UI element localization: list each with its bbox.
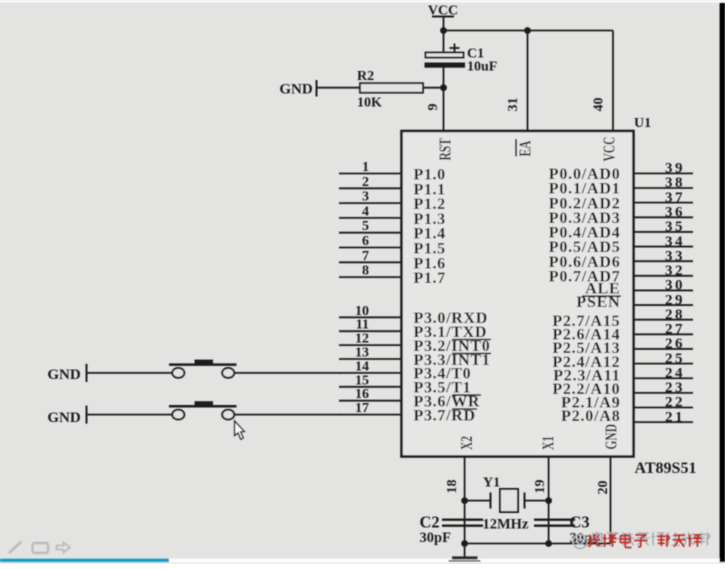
svg-text:39: 39 bbox=[665, 161, 685, 177]
svg-text:33: 33 bbox=[665, 248, 685, 264]
svg-text:12: 12 bbox=[355, 332, 369, 347]
svg-text:25: 25 bbox=[665, 351, 685, 367]
svg-text:27: 27 bbox=[665, 322, 685, 338]
svg-text:20: 20 bbox=[596, 481, 611, 495]
svg-text:GND: GND bbox=[279, 82, 313, 98]
svg-text:3: 3 bbox=[362, 190, 369, 205]
svg-text:Y1: Y1 bbox=[483, 476, 500, 491]
svg-text:28: 28 bbox=[665, 307, 685, 323]
svg-text:40: 40 bbox=[592, 98, 607, 112]
svg-text:30: 30 bbox=[665, 278, 685, 294]
svg-text:VCC: VCC bbox=[601, 137, 620, 162]
svg-text:12MHz: 12MHz bbox=[483, 517, 529, 533]
svg-text:2: 2 bbox=[362, 175, 369, 190]
svg-text:29: 29 bbox=[665, 292, 685, 308]
svg-text:14: 14 bbox=[355, 359, 369, 374]
svg-text:35: 35 bbox=[665, 219, 685, 235]
svg-text:22: 22 bbox=[665, 395, 685, 411]
svg-text:5: 5 bbox=[362, 219, 369, 234]
svg-text:24: 24 bbox=[665, 365, 685, 381]
svg-text:GND: GND bbox=[47, 367, 81, 383]
svg-text:X1: X1 bbox=[540, 436, 559, 450]
svg-text:16: 16 bbox=[355, 387, 369, 402]
svg-text:34: 34 bbox=[665, 234, 685, 250]
svg-text:21: 21 bbox=[665, 409, 685, 425]
svg-text:8: 8 bbox=[362, 264, 369, 279]
svg-text:P2.0/A8: P2.0/A8 bbox=[561, 408, 620, 425]
svg-text:23: 23 bbox=[665, 380, 685, 396]
svg-text:AT89S51: AT89S51 bbox=[635, 460, 697, 477]
svg-text:9: 9 bbox=[426, 104, 441, 111]
svg-text:R2: R2 bbox=[357, 69, 374, 84]
svg-text:13: 13 bbox=[355, 346, 369, 361]
svg-text:38: 38 bbox=[665, 175, 685, 191]
svg-text:15: 15 bbox=[355, 373, 369, 388]
svg-text:19: 19 bbox=[533, 480, 548, 494]
svg-text:P1.7: P1.7 bbox=[414, 270, 446, 287]
svg-text:GND: GND bbox=[47, 410, 81, 426]
svg-text:31: 31 bbox=[506, 98, 521, 112]
svg-text:RST: RST bbox=[437, 138, 456, 161]
svg-text:11: 11 bbox=[356, 318, 369, 333]
svg-text:18: 18 bbox=[445, 480, 460, 494]
svg-text:6: 6 bbox=[362, 234, 369, 249]
svg-text:37: 37 bbox=[665, 190, 685, 206]
svg-text:P3.7/RD: P3.7/RD bbox=[414, 407, 476, 424]
svg-text:C3: C3 bbox=[570, 513, 590, 532]
svg-text:10K: 10K bbox=[357, 96, 382, 111]
svg-text:1: 1 bbox=[362, 160, 369, 175]
svg-text:GND: GND bbox=[603, 424, 622, 450]
svg-text:32: 32 bbox=[665, 263, 685, 279]
svg-text:36: 36 bbox=[665, 204, 685, 220]
svg-text:X2: X2 bbox=[458, 436, 477, 450]
svg-text:10uF: 10uF bbox=[467, 60, 497, 75]
svg-text:30pF: 30pF bbox=[420, 530, 452, 546]
svg-text:EA: EA bbox=[517, 140, 536, 157]
svg-text:10: 10 bbox=[355, 304, 369, 319]
svg-text:U1: U1 bbox=[634, 116, 651, 131]
svg-text:C2: C2 bbox=[420, 513, 440, 532]
svg-text:17: 17 bbox=[355, 401, 369, 416]
svg-text:26: 26 bbox=[665, 336, 685, 352]
svg-text:7: 7 bbox=[362, 249, 369, 264]
svg-text:4: 4 bbox=[362, 204, 369, 219]
